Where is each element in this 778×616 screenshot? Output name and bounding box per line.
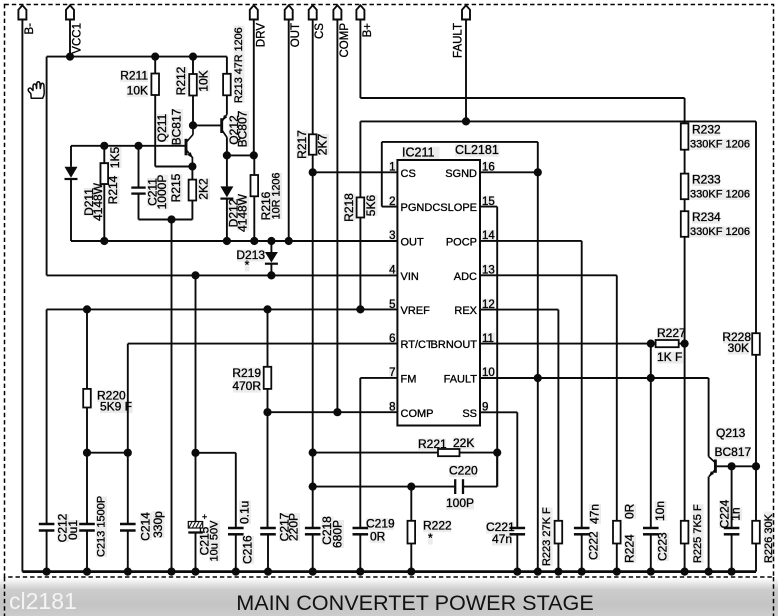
svg-text:BC817: BC817	[715, 445, 752, 459]
wire R213 bottom to Q212 emitter	[226, 95, 228, 114]
connector FAULT	[462, 5, 470, 19]
svg-text:CS: CS	[314, 23, 326, 39]
wire C223 to bus	[650, 534, 652, 571]
resistor R226 30K	[752, 521, 760, 544]
resistor R221 22K	[438, 449, 460, 456]
wire COMP drop	[336, 20, 338, 413]
svg-text:R224: R224	[622, 534, 636, 563]
wire D213 bottom	[270, 264, 272, 276]
wire Q212 collector down	[226, 137, 228, 155]
transistor Q213 BC817	[709, 457, 716, 477]
wire PGND riser	[381, 142, 383, 207]
svg-text:10K: 10K	[127, 84, 148, 98]
diode D211 4148W	[65, 167, 78, 178]
junction R228 R226 node	[752, 462, 760, 470]
svg-text:VIN: VIN	[401, 271, 419, 283]
wire ADC drop to R224	[616, 275, 618, 521]
hand cursor icon	[28, 82, 44, 98]
wire SGND bus vertical	[537, 142, 539, 572]
junction bus x=312.7	[309, 568, 317, 576]
svg-text:330KF 1206: 330KF 1206	[690, 189, 750, 201]
svg-text:C223: C223	[655, 532, 669, 561]
wire C211/R215 link	[139, 219, 193, 221]
capacitor C217 220P	[260, 527, 276, 530]
svg-text:22K: 22K	[453, 436, 474, 450]
wire B+ drop	[359, 20, 361, 99]
svg-text:COMP: COMP	[339, 23, 351, 58]
wire R216 top	[253, 155, 255, 175]
junction bus x=616.8	[613, 568, 621, 576]
junction DRV node	[250, 151, 258, 159]
resistor R215	[189, 180, 197, 201]
resistor R224 0R	[613, 521, 621, 544]
svg-text:10R 1206: 10R 1206	[271, 173, 283, 220]
resistor R219	[264, 367, 272, 389]
wire pin4 VIN line	[47, 274, 398, 276]
svg-text:FM: FM	[401, 374, 417, 386]
wire C215 drop	[195, 275, 197, 452]
svg-text:10K: 10K	[196, 70, 210, 91]
wire C214 to bus	[127, 531, 129, 572]
svg-text:IC211: IC211	[402, 146, 434, 160]
svg-text:7: 7	[389, 367, 395, 379]
capacitor C216 0.1u	[228, 527, 244, 530]
wire R215 top	[191, 167, 193, 180]
svg-text:0.1u: 0.1u	[237, 501, 251, 524]
wire C221 to bus	[516, 534, 518, 571]
svg-text:POCP: POCP	[446, 236, 477, 248]
junction D212 pin3 line	[223, 237, 231, 245]
wire CSLOPE drop	[496, 207, 498, 487]
junction bus x=517.3	[513, 568, 521, 576]
capacitor C212 0u1	[39, 523, 55, 526]
junction C215 VIN	[191, 271, 199, 279]
wire D213 top	[270, 241, 272, 252]
svg-text:*: *	[428, 531, 433, 545]
wire Q211 base	[71, 145, 186, 147]
wire R220 top	[86, 309, 88, 389]
wire pin16 SGND stub	[480, 171, 538, 173]
svg-text:330KF 1206: 330KF 1206	[690, 139, 750, 151]
svg-text:1n: 1n	[728, 507, 742, 520]
wire R228 top riser	[755, 121, 757, 333]
connector B-	[18, 5, 26, 19]
svg-text:5: 5	[389, 299, 395, 311]
junction bus x=360.3	[356, 568, 364, 576]
svg-text:FAULT: FAULT	[444, 374, 478, 386]
wire R232 chain top	[684, 98, 686, 123]
wire C224 drop	[731, 466, 733, 528]
junction R214 base line	[100, 142, 108, 150]
wire R214 bottom	[103, 184, 105, 241]
junction R221 left CS	[309, 449, 317, 457]
wire D212 bottom	[226, 199, 228, 241]
junction bus x=684.6	[681, 568, 689, 576]
svg-text:1K F: 1K F	[657, 350, 682, 364]
wire C220 left	[313, 486, 456, 488]
wire pin8 COMP line	[268, 411, 398, 413]
wire C215 lower	[195, 453, 197, 522]
svg-text:30K: 30K	[728, 341, 749, 355]
wire CS below R217	[312, 155, 314, 528]
resistor R222	[408, 521, 416, 544]
wire R211 bottom	[154, 95, 156, 167]
wire C223 drop	[650, 344, 652, 528]
wire D211 bottom	[70, 179, 72, 241]
wire B- vertical	[21, 20, 23, 572]
wire C215 to bus	[195, 533, 197, 572]
svg-text:R212: R212	[174, 66, 188, 95]
wire C213 drop	[86, 453, 88, 524]
resistor R218	[357, 197, 365, 217]
wire Q213 base line	[715, 465, 756, 467]
wire R234 down to BRNOUT node	[684, 237, 686, 344]
wire R220 bottom	[86, 408, 88, 453]
svg-text:COMP: COMP	[401, 408, 434, 420]
resistor R225 7K5 F	[681, 521, 689, 544]
svg-text:FAULT: FAULT	[453, 23, 465, 58]
svg-text:R226 30K: R226 30K	[763, 513, 775, 563]
svg-text:+: +	[202, 512, 207, 522]
svg-text:5K6: 5K6	[364, 195, 378, 217]
svg-text:4148W: 4148W	[91, 182, 105, 221]
junction R220 top VREF	[83, 305, 91, 313]
svg-text:330KF 1206: 330KF 1206	[690, 226, 750, 238]
junction C214 link	[124, 449, 132, 457]
wire FM drop to C219	[359, 378, 361, 528]
svg-text:330p: 330p	[151, 511, 165, 538]
wire D212 top	[226, 155, 228, 186]
wire R225 top	[684, 344, 686, 521]
svg-text:10u 50V: 10u 50V	[209, 520, 221, 562]
svg-text:*: *	[245, 258, 250, 272]
wire pin10 FAULT line	[480, 377, 709, 379]
svg-text:DRV: DRV	[255, 23, 267, 47]
wire R219 bottom	[267, 389, 269, 412]
svg-text:Q211: Q211	[155, 113, 169, 142]
wire R214 top	[103, 146, 105, 163]
wire emitter node to R211	[155, 166, 192, 168]
wire R226 to bus	[755, 544, 757, 572]
patch resistor R214 body	[101, 163, 109, 184]
wire CSLOPE corner to C220	[496, 453, 498, 487]
wire R221 left	[313, 452, 438, 454]
svg-text:R233: R233	[692, 173, 721, 187]
junction bus x=235.8	[232, 568, 240, 576]
svg-text:0u1: 0u1	[66, 520, 80, 540]
junction R221 CSLOPE	[493, 449, 501, 457]
capacitor C224 1n	[724, 527, 740, 530]
svg-text:C213 1500P: C213 1500P	[95, 496, 107, 557]
wire R215 bottom	[191, 201, 193, 220]
junction bus x=537.8	[534, 568, 542, 576]
svg-text:R217: R217	[295, 130, 309, 159]
svg-text:4: 4	[389, 265, 396, 277]
resistor R216	[251, 175, 259, 196]
junction bus x=581.7	[578, 568, 586, 576]
junction VCC1 on rail	[66, 53, 74, 61]
resistor R232	[681, 123, 689, 149]
junction link down-wire	[167, 215, 175, 223]
svg-text:OUT: OUT	[401, 236, 425, 248]
wire R222 to bus	[410, 544, 412, 572]
wire Q213 emitter drop	[708, 477, 710, 572]
wire C215/C216 link	[196, 452, 236, 454]
svg-text:470R: 470R	[232, 379, 261, 393]
wire R218 bottom	[359, 218, 361, 310]
wire C216 drop	[235, 453, 237, 528]
junction bus x=46.6	[43, 568, 51, 576]
wire pin11 BRNOUT line	[480, 343, 651, 345]
junction COMP connector pin8	[333, 408, 341, 416]
junction bus x=127.8	[124, 568, 132, 576]
resistor R217	[309, 134, 317, 154]
svg-text:CSLOPE: CSLOPE	[432, 202, 477, 214]
svg-text:C220: C220	[449, 464, 478, 478]
svg-text:C216: C216	[240, 535, 254, 564]
svg-text:B-: B-	[24, 23, 36, 35]
wire DRV drop	[253, 20, 255, 156]
svg-text:1000P: 1000P	[155, 175, 169, 210]
svg-text:REX: REX	[454, 305, 477, 317]
wire C222 to bus	[581, 534, 583, 571]
wire R223 to bus	[557, 544, 559, 572]
junction C211 base line	[134, 142, 142, 150]
resistor R214	[101, 163, 109, 184]
svg-text:C222: C222	[586, 531, 600, 560]
capacitor C214 330p	[120, 523, 136, 526]
wire pin5 VREF line	[47, 308, 398, 310]
junction bus x=87	[83, 568, 91, 576]
connector OUT	[285, 5, 293, 19]
resistor R220	[83, 389, 91, 408]
wire C216 to bus	[235, 534, 237, 571]
svg-text:0R: 0R	[622, 503, 636, 519]
wire C211 top	[138, 146, 140, 188]
junction bus x=650.8	[647, 568, 655, 576]
junction R211 rail	[151, 53, 159, 61]
svg-text:680P: 680P	[330, 520, 344, 548]
resistor R227 1K F	[656, 340, 679, 347]
junction R219 top VREF	[263, 305, 271, 313]
wire VCC1 drop	[69, 20, 71, 57]
wire C213 to bus	[86, 531, 88, 572]
wire pin14 POCP stub	[480, 240, 582, 242]
wire FAULT horizontal	[360, 120, 756, 122]
junction D213 bottom	[267, 271, 275, 279]
junction Q211 emitter node	[188, 162, 196, 170]
wire R212 top	[192, 57, 194, 74]
resistor R233	[681, 174, 689, 200]
wire R227 right stub	[679, 343, 685, 345]
wire C219 to bus	[359, 534, 361, 571]
svg-text:R213 47R 1206: R213 47R 1206	[233, 27, 245, 103]
svg-text:R219: R219	[232, 366, 261, 380]
wire pin15 CSLOPE stub	[480, 206, 497, 208]
svg-text:6: 6	[389, 333, 395, 345]
wire PGND/SGND top route	[382, 141, 538, 143]
junction bus x=411.3	[407, 568, 415, 576]
junction R222 top	[407, 483, 415, 491]
wire Q213 collector riser	[708, 378, 710, 457]
wire CS drop upper	[312, 20, 314, 135]
junction OUT connector pin3	[285, 237, 293, 245]
diode D212 4148W	[220, 186, 233, 197]
svg-text:VCC1: VCC1	[72, 23, 84, 54]
wire pin3 OUT line	[71, 240, 397, 242]
junction FAULT C223 line	[647, 374, 655, 382]
svg-text:ADC: ADC	[454, 271, 477, 283]
wire pin2 PGND stub	[382, 206, 398, 208]
connector B+	[356, 5, 364, 19]
svg-text:RT/CT: RT/CT	[401, 339, 433, 351]
junction bus x=171.5	[167, 568, 175, 576]
diode D213	[265, 252, 278, 263]
svg-text:BRNOUT: BRNOUT	[431, 339, 478, 351]
wire R211 top	[154, 57, 156, 74]
resistor R228 30K	[752, 333, 760, 355]
wire ground bus	[22, 570, 756, 573]
title bar	[0, 578, 778, 616]
wire R219 node down to C217	[267, 412, 269, 528]
capacitor C222 47n	[574, 527, 590, 530]
svg-text:R232: R232	[692, 123, 721, 137]
svg-text:8: 8	[389, 402, 395, 414]
svg-text:R218: R218	[342, 193, 356, 222]
svg-text:R221: R221	[418, 437, 447, 451]
svg-text:1: 1	[389, 162, 395, 174]
wire C218 to bus	[312, 534, 314, 571]
capacitor C211 1000P	[131, 186, 145, 188]
junction R218 VREF line	[356, 305, 364, 313]
wire R225 to bus	[684, 544, 686, 572]
svg-text:1K5: 1K5	[108, 147, 122, 169]
wire VCC1 rail	[47, 56, 227, 58]
resistor R212	[189, 74, 197, 96]
junction C224 top	[728, 462, 736, 470]
wire C217 to bus	[267, 534, 269, 571]
wire REX drop to R223	[557, 310, 559, 521]
resistor R223 27K F	[555, 521, 563, 544]
wire pin1 CS line	[313, 171, 398, 173]
resistor R211	[151, 74, 159, 96]
wire C214 drop	[127, 453, 129, 524]
junction SGND pin16	[534, 168, 542, 176]
svg-text:R211: R211	[120, 69, 148, 83]
junction D213 top	[267, 237, 275, 245]
junction R214 pin3 line	[100, 237, 108, 245]
wire C220 right	[463, 486, 497, 488]
capacitor C213 1500P	[79, 523, 95, 526]
svg-text:10n: 10n	[653, 501, 667, 521]
junction bus x=195.5	[191, 568, 199, 576]
resistor R234	[681, 211, 689, 237]
wire FAULT drop	[465, 20, 467, 122]
capacitor C221 47n	[510, 527, 526, 530]
svg-text:220P: 220P	[286, 513, 300, 541]
junction divider BRNOUT	[681, 340, 689, 348]
junction C215 link	[191, 449, 199, 457]
svg-text:OUT: OUT	[290, 23, 302, 47]
wire R227 left stub	[651, 343, 656, 345]
wire R233-R234	[684, 199, 686, 211]
svg-text:3: 3	[389, 230, 395, 242]
svg-text:PGND: PGND	[401, 202, 433, 214]
connector COMP	[333, 5, 341, 19]
capacitor C220 100P	[454, 479, 456, 494]
connector CS	[309, 5, 317, 19]
svg-text:4148W: 4148W	[235, 193, 249, 232]
wire R216 bottom	[253, 196, 255, 241]
svg-text:5K9 F: 5K9 F	[100, 400, 132, 414]
wire R226 top	[755, 466, 757, 521]
wire rail left drop to VIN	[46, 57, 48, 276]
junction R227 left	[647, 340, 655, 348]
wire FAULT net left drop	[359, 121, 361, 197]
wire pin13 ADC stub	[480, 274, 617, 276]
wire R221 right	[460, 452, 498, 454]
junction bus x=558.4	[554, 568, 562, 576]
wire C211 bottom	[138, 194, 140, 220]
junction bus x=708.6	[705, 568, 713, 576]
svg-text:0R: 0R	[370, 530, 386, 544]
capacitor C215 electrolytic	[188, 512, 207, 533]
transistor Q211 BC817	[186, 125, 193, 166]
wire Q211 collector to Q212 base	[193, 124, 222, 126]
wire pin9 SS stub	[480, 411, 517, 413]
svg-text:2K2: 2K2	[196, 178, 210, 200]
svg-text:C219: C219	[366, 517, 395, 531]
junction bus x=731.6	[728, 568, 736, 576]
wire VREF left drop to C212	[46, 309, 48, 524]
op-amp U1 IC211 body	[397, 160, 480, 426]
wire RT/CT drop	[127, 344, 129, 453]
wire C224 to bus	[731, 534, 733, 571]
wire R219 top	[267, 309, 269, 366]
junction CS pin1	[309, 168, 317, 176]
svg-text:CL2181: CL2181	[455, 143, 499, 157]
svg-text:R227: R227	[657, 326, 686, 340]
svg-text:R215: R215	[169, 173, 183, 202]
wire R220/C214 link	[87, 452, 128, 454]
svg-text:R234: R234	[692, 210, 721, 224]
svg-text:100P: 100P	[446, 496, 474, 510]
wire R232-R233	[684, 150, 686, 174]
transistor Q212 BC807	[222, 115, 228, 138]
svg-text:VREF: VREF	[401, 305, 431, 317]
capacitor C218 680P	[305, 527, 321, 530]
svg-text:47n: 47n	[492, 532, 512, 546]
wire B+ top horizontal	[360, 97, 684, 99]
wire pin12 REX stub	[480, 309, 558, 311]
svg-text:47n: 47n	[587, 504, 601, 524]
svg-text:SGND: SGND	[445, 168, 477, 180]
svg-text:B+: B+	[362, 23, 374, 38]
wire SS drop to C221	[516, 412, 518, 528]
svg-text:2K7: 2K7	[315, 134, 329, 156]
resistor R213	[223, 74, 231, 96]
svg-text:SS: SS	[462, 408, 477, 420]
wire R213 top	[226, 57, 228, 74]
svg-text:R223 27K F: R223 27K F	[541, 507, 553, 566]
connector VCC1	[66, 5, 74, 19]
junction R216 pin3 line	[250, 237, 258, 245]
junction FAULT line	[462, 117, 470, 125]
svg-text:Q213: Q213	[716, 426, 746, 440]
junction FAULT SGND	[534, 374, 542, 382]
wire R228 bottom	[755, 355, 757, 467]
svg-text:D213: D213	[236, 248, 265, 262]
